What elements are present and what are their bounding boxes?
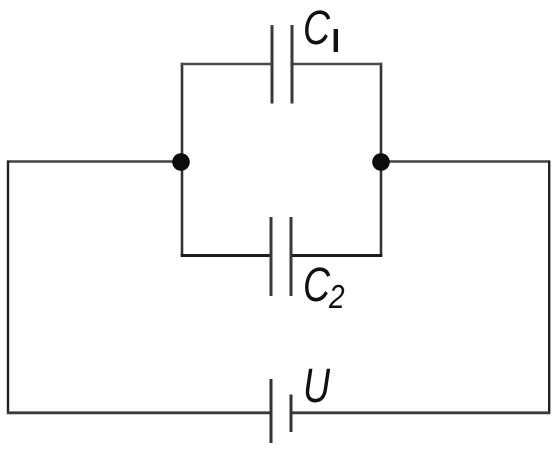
svg-text:2: 2	[328, 279, 345, 316]
svg-text:C: C	[303, 259, 331, 313]
svg-text:U: U	[303, 360, 331, 414]
svg-text:C: C	[303, 2, 331, 56]
